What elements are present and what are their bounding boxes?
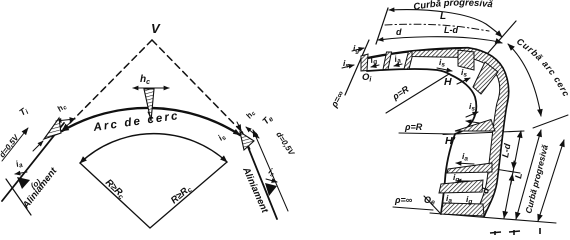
svg-text:Oe: Oe [424,195,435,207]
svg-text:V: V [151,21,161,36]
svg-text:d=0,5V: d=0,5V [274,130,296,157]
svg-text:hc: hc [244,108,258,121]
svg-text:ia: ia [446,193,452,205]
svg-text:Oi: Oi [362,72,372,84]
svg-text:ig: ig [466,194,472,206]
svg-text:R≥Rc: R≥Rc [103,177,128,201]
svg-text:d=0,5V: d=0,5V [0,133,21,160]
svg-text:is: is [469,101,475,113]
svg-text:L-d: L-d [444,25,458,35]
svg-text:ia: ia [393,53,402,66]
svg-text:L: L [513,172,524,179]
svg-text:L-d: L-d [500,142,512,158]
svg-text:H': H' [445,135,456,147]
svg-text:ia: ia [14,157,24,170]
svg-text:ρ=R: ρ=R [404,122,423,132]
svg-text:is: is [343,58,349,70]
svg-text:Curbă arc cerc: Curbă arc cerc [515,36,570,99]
svg-text:ig: ig [453,172,459,184]
svg-text:hc: hc [56,101,70,115]
svg-text:is: is [267,166,278,179]
svg-text:Ti: Ti [17,105,31,119]
svg-text:is: is [439,57,445,69]
svg-text:ia: ia [462,151,468,163]
svg-text:ρ=∞: ρ=∞ [394,195,413,205]
svg-text:d: d [396,27,402,37]
svg-text:is: is [461,67,467,79]
svg-text:L: L [440,11,446,22]
svg-text:R≥Rc: R≥Rc [169,183,194,207]
svg-text:ig: ig [353,43,359,55]
svg-text:hc: hc [140,74,150,86]
svg-text:Curbă progresivă: Curbă progresivă [413,0,494,13]
svg-text:is: is [216,131,228,144]
svg-text:Te: Te [260,113,275,128]
svg-text:H: H [444,76,452,88]
svg-text:ρ=∞: ρ=∞ [328,89,346,110]
